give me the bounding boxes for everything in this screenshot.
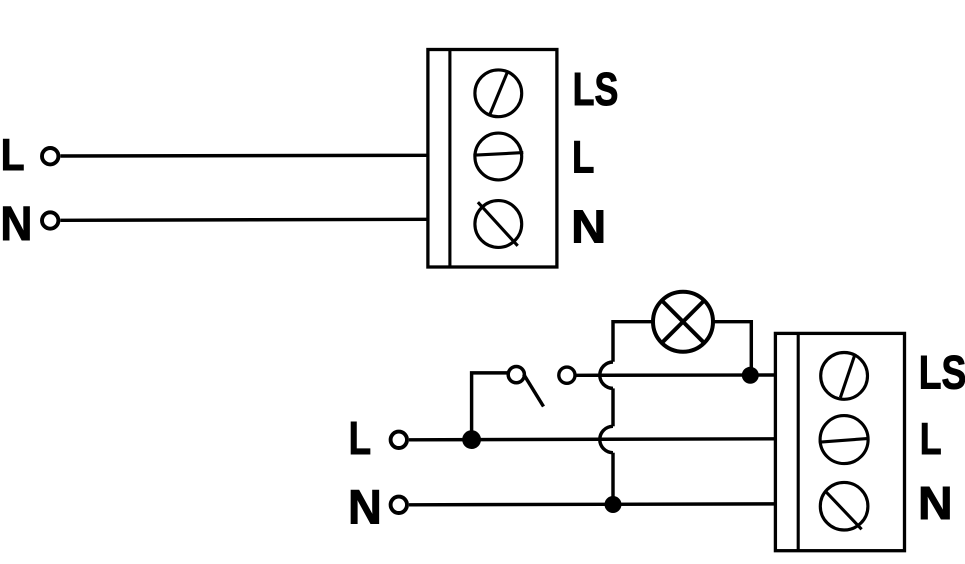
terminal circle N (top input)	[42, 212, 58, 228]
svg-text:LS: LS	[573, 64, 619, 115]
lamp P1 (circle with X)	[653, 292, 713, 352]
wire L to top block	[60, 154, 429, 158]
svg-text:L: L	[920, 413, 942, 464]
svg-text:N: N	[0, 196, 32, 250]
junction dot (LS / lamp)	[742, 367, 759, 384]
screw terminal L (top)	[473, 133, 523, 180]
svg-text:N: N	[571, 202, 606, 254]
wire N (bottom) to block	[409, 502, 776, 506]
wire L (bottom) to block	[409, 439, 776, 440]
svg-text:N: N	[918, 477, 953, 529]
screw terminal L (bottom)	[819, 416, 869, 464]
junction dot (N / lamp)	[605, 496, 622, 513]
crossover hop (vertical over L wire)	[600, 426, 613, 452]
screw terminal LS (bottom)	[821, 353, 868, 400]
terminal circle L (bottom input)	[391, 432, 407, 448]
screw terminal N (top)	[475, 201, 522, 248]
junction dot (L / switch)	[462, 430, 481, 449]
svg-text:LS: LS	[919, 346, 965, 399]
terminal block (top) inner divider	[448, 50, 451, 268]
crossover hop (vertical over LS wire)	[600, 362, 613, 388]
wire LS (switch output to bottom block)	[575, 373, 776, 377]
wire lamp right lead	[713, 322, 751, 376]
switch S1	[472, 367, 575, 440]
svg-text:L: L	[572, 132, 594, 183]
screw terminal LS (top)	[475, 70, 522, 117]
terminal block (bottom) outer body	[775, 333, 904, 550]
terminal block (top) outer body	[428, 50, 557, 268]
svg-text:L: L	[349, 412, 371, 464]
wire N to top block	[60, 219, 429, 220]
wire vertical between hops	[611, 388, 614, 426]
screw terminal N (bottom)	[820, 482, 868, 530]
svg-text:N: N	[348, 481, 382, 535]
wire vertical down to N junction	[611, 453, 614, 505]
terminal circle L (top input)	[42, 148, 58, 164]
svg-text:L: L	[1, 130, 25, 180]
wire lamp left lead	[613, 322, 653, 362]
terminal block (bottom) inner divider	[797, 333, 800, 550]
terminal circle N (bottom input)	[391, 497, 407, 513]
